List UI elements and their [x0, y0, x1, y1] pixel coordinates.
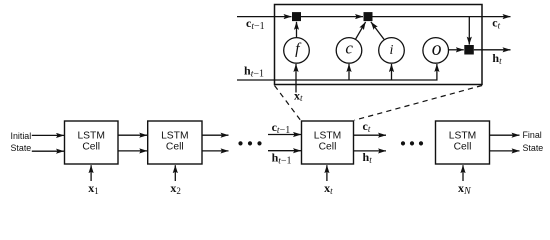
svg-text:State: State — [11, 143, 32, 153]
svg-text:ht−1: ht−1 — [244, 64, 264, 80]
svg-text:LSTM: LSTM — [449, 131, 476, 142]
svg-text:xN: xN — [458, 181, 472, 197]
svg-text:ct−1: ct−1 — [272, 120, 291, 136]
svg-text:Initial: Initial — [11, 131, 32, 141]
svg-text:State: State — [523, 143, 544, 153]
svg-text:Cell: Cell — [82, 142, 100, 153]
svg-text:Cell: Cell — [454, 142, 472, 153]
svg-text:ht−1: ht−1 — [272, 151, 292, 167]
svg-text:i: i — [390, 43, 394, 58]
svg-text:ct−1: ct−1 — [246, 16, 265, 32]
svg-text:o: o — [432, 39, 442, 60]
svg-text:x2: x2 — [170, 181, 181, 196]
svg-text:ht: ht — [492, 51, 502, 66]
svg-text:Cell: Cell — [319, 142, 337, 153]
svg-text:LSTM: LSTM — [77, 131, 104, 142]
svg-text:ct: ct — [492, 15, 500, 30]
svg-text:Final: Final — [523, 130, 542, 140]
svg-text:LSTM: LSTM — [161, 131, 188, 142]
svg-text:ct: ct — [363, 119, 371, 134]
svg-text:Cell: Cell — [166, 142, 184, 153]
svg-text:x1: x1 — [88, 181, 99, 196]
svg-text:c: c — [345, 39, 353, 58]
svg-text:ht: ht — [363, 150, 373, 165]
svg-text:xt: xt — [324, 181, 333, 196]
svg-text:LSTM: LSTM — [314, 131, 341, 142]
svg-text:xt: xt — [294, 88, 303, 103]
